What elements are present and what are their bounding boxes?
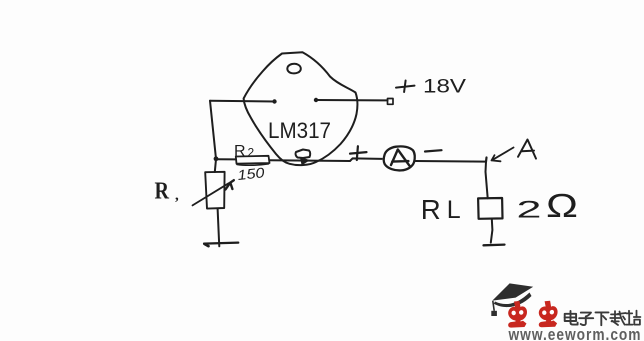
logo graduation cap band (494, 293, 532, 308)
rheostat R1 body (205, 172, 224, 209)
logo tassel end (491, 311, 497, 316)
wire: ammeter to node A (416, 160, 487, 163)
LM317 mounting hole (287, 64, 300, 74)
LM317 output tab filled wedge (301, 158, 309, 165)
rheostat R1 arrowhead (226, 180, 234, 189)
LM317 output tab D shape (296, 150, 311, 159)
rheostat R1 arrow (193, 183, 229, 205)
wire: RL to ground (491, 219, 493, 243)
wire: junction down to R1 (215, 159, 216, 172)
logo tassel cord (493, 301, 494, 311)
svg-text:L: L (447, 196, 461, 224)
wire: junction to R2 (216, 158, 236, 160)
LM317 package outline U1 (244, 52, 358, 165)
pin dot left (ADJ) (272, 99, 276, 103)
node label A (518, 140, 536, 159)
svg-text:2: 2 (517, 197, 542, 224)
resistor RL body (square) (478, 198, 502, 219)
svg-text:www.eeworm.com: www.eeworm.com (508, 325, 642, 341)
ground symbol right (484, 243, 505, 246)
svg-text:R: R (421, 194, 441, 225)
ammeter A1 body (384, 146, 415, 170)
logo character chong 2 (539, 301, 558, 328)
svg-text:R: R (234, 143, 246, 160)
plus sign at ammeter input (350, 146, 367, 160)
logo character chong 1 (508, 301, 527, 328)
svg-text:2: 2 (248, 146, 255, 160)
resistor R2 body (236, 156, 270, 164)
resistor R2 bottom double stroke (237, 164, 269, 165)
wire: node A down to RL (486, 162, 488, 199)
minus sign at ammeter output (425, 150, 442, 151)
svg-text:18V: 18V (423, 77, 466, 98)
node A junction tick (485, 158, 488, 162)
pin dot right (Vin) (314, 98, 318, 102)
svg-text:,: , (175, 188, 179, 204)
plus sign of +18V (396, 81, 415, 93)
ammeter letter A (391, 150, 410, 167)
wire: left vertical rail (210, 101, 216, 159)
logo graduation cap board (492, 283, 533, 300)
logo text zai (610, 311, 626, 325)
logo text zi (579, 313, 593, 325)
wire: R2 to output rail under package (270, 158, 382, 161)
logo text dian (565, 311, 578, 325)
wire: left pin to left rail corner (210, 100, 275, 103)
arrow pointing to node A (492, 148, 514, 162)
svg-text:Ω: Ω (546, 187, 578, 224)
ground left end blob (205, 244, 209, 246)
logo text xia (596, 312, 609, 325)
svg-text:R: R (155, 179, 170, 205)
logo text zhan (626, 311, 641, 325)
wire: R1 to ground (218, 209, 220, 247)
terminal +18V (small square) (388, 99, 394, 105)
svg-text:150: 150 (237, 164, 266, 183)
node junction (rail / R2 / R1) (214, 156, 219, 161)
svg-text:LM317: LM317 (268, 118, 331, 143)
wire: right pin to +18V terminal (316, 99, 388, 101)
ground symbol left (204, 243, 238, 244)
